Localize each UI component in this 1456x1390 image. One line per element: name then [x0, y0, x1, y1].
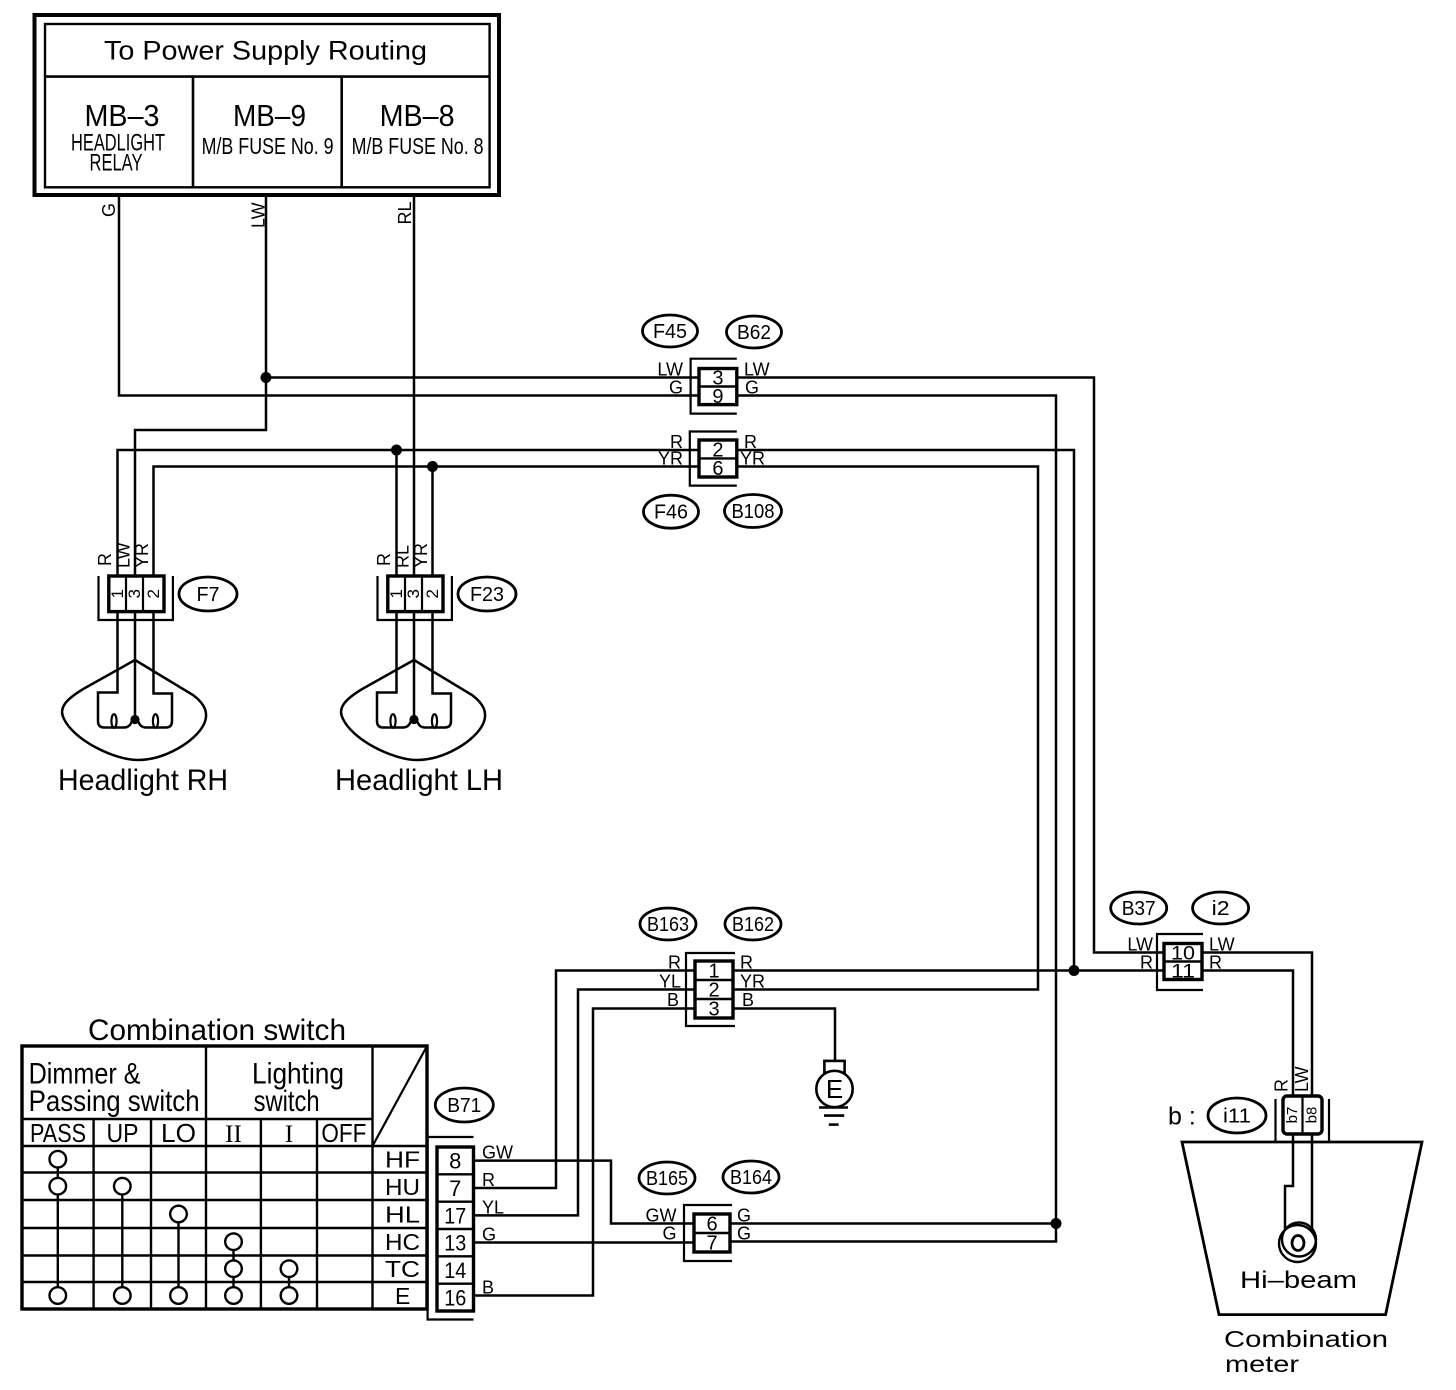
ellipse B108 — [725, 495, 782, 528]
wire label R at RH pin1 (rotated) — [95, 553, 115, 566]
svg-text:HF: HF — [385, 1147, 420, 1173]
svg-text:7: 7 — [449, 1176, 461, 1201]
wire label R at B71 pin 7 — [482, 1170, 495, 1190]
pin number 2 — [712, 439, 723, 461]
wire R net: headlight RH pin1 up, right to F46 pin 2 — [118, 450, 700, 576]
connector B163/B162 bracket — [686, 953, 735, 1026]
wire label G left of F45 — [669, 378, 683, 398]
junction R wire to headlight LH pin 1 — [391, 445, 402, 456]
svg-text:i2: i2 — [1212, 898, 1230, 920]
ellipse B165 — [639, 1162, 695, 1194]
wire branch to LH pin 2 — [431, 467, 434, 577]
svg-text:R: R — [95, 553, 115, 566]
contact circle II/HC — [225, 1233, 242, 1250]
headlight RH bulb filament fork — [98, 612, 172, 728]
pin number 1 — [708, 961, 719, 983]
wire label LW left of B37 — [1127, 935, 1153, 955]
contact circle PASS/HU — [50, 1178, 67, 1195]
wire R from B162 pin 1 to B37 pin 11 — [733, 969, 1164, 972]
svg-text:3: 3 — [404, 589, 423, 598]
pin number 16 — [444, 1285, 466, 1310]
label: To Power Supply Routing — [104, 36, 427, 66]
junction YR wire to headlight LH pin 2 — [427, 461, 438, 472]
pin number 1 (rotated) — [387, 589, 406, 598]
headlight RH connector F7 pin box pins 1,3,2 — [109, 576, 164, 612]
svg-text:LW: LW — [1127, 935, 1153, 955]
svg-text:HU: HU — [385, 1174, 420, 1200]
svg-text:B37: B37 — [1122, 898, 1156, 920]
svg-text:R: R — [374, 553, 394, 566]
wire label B at B71 pin 16 — [482, 1278, 494, 1298]
connector F45/B62 bracket — [691, 359, 737, 414]
column header II — [225, 1121, 242, 1148]
connector B165/B164 bracket — [684, 1205, 732, 1261]
svg-text:F7: F7 — [197, 584, 220, 606]
connector B37/i2 pin box pins 10,11 — [1164, 944, 1202, 980]
svg-text:R: R — [1272, 1079, 1292, 1092]
wire label R right of B37 — [1209, 953, 1222, 973]
ellipse F45 — [643, 315, 698, 347]
wire label G right of F45 — [745, 378, 759, 398]
column header I — [285, 1121, 293, 1148]
wire label LW (rotated) — [249, 202, 269, 228]
svg-text:MB–9: MB–9 — [233, 98, 306, 133]
svg-text:14: 14 — [444, 1258, 466, 1283]
wire label R left of F46 — [670, 432, 683, 452]
connector B71 bracket — [428, 1137, 474, 1320]
row label HC — [385, 1229, 420, 1255]
pin number 9 — [712, 386, 723, 408]
label Lighting switch — [252, 1058, 344, 1119]
pin number 2 (rotated) — [423, 589, 442, 598]
headlight LH connector F23 pin box pins 1,3,2 — [388, 576, 443, 612]
ellipse B162 — [725, 908, 781, 940]
wire R from F46 pin 2 right, down to junction — [737, 450, 1074, 971]
svg-text:OFF: OFF — [321, 1118, 366, 1148]
svg-text:LO: LO — [161, 1118, 196, 1148]
wire YR from F46 pin 6 right, down to B162 pin 2 — [733, 467, 1038, 990]
wire label YR right of F46 — [740, 449, 765, 469]
fuse block MB-3 HEADLIGHT RELAY label — [71, 98, 165, 177]
connector i11 bracket bars — [1276, 1099, 1330, 1142]
pin number 14 — [444, 1258, 466, 1283]
contact line II column — [232, 1242, 234, 1296]
wire label G right of B164 pin6 — [737, 1206, 751, 1226]
svg-text:F23: F23 — [470, 584, 504, 606]
wire label R left of B163 — [668, 953, 681, 973]
connector B37/i2 bracket — [1157, 934, 1203, 990]
svg-text:G: G — [662, 1224, 676, 1244]
svg-text:RELAY: RELAY — [90, 150, 143, 177]
svg-text:Passing switch: Passing switch — [29, 1085, 200, 1118]
svg-text:b8: b8 — [1304, 1107, 1321, 1124]
row label E — [395, 1283, 410, 1309]
contact circle I/E — [281, 1287, 298, 1304]
wire LW from MB-9 down, branch right to F45 pin 3, branch down-left to headlight RH pin 3 — [135, 195, 699, 576]
contact line PASS column — [57, 1159, 59, 1295]
table diagonal — [373, 1046, 428, 1146]
svg-text:Headlight RH: Headlight RH — [58, 764, 228, 797]
pin number 3 (rotated) — [404, 589, 423, 598]
ellipse F46 — [644, 495, 699, 528]
svg-text:17: 17 — [444, 1203, 466, 1228]
svg-text:meter: meter — [1225, 1351, 1299, 1377]
hi-beam indicator bulb — [1279, 1223, 1316, 1263]
power supply routing box outer frame — [35, 15, 500, 195]
connector F46/B108 bracket — [690, 432, 737, 486]
svg-text:I: I — [285, 1121, 293, 1148]
svg-text:b7: b7 — [1284, 1107, 1301, 1124]
headlight LH connector bracket — [378, 576, 452, 620]
svg-text:B62: B62 — [737, 322, 771, 344]
wire LW from B37 pin 10 right then down to connector b8 — [1202, 953, 1312, 1097]
svg-text:G: G — [737, 1224, 751, 1244]
pin number 7 — [706, 1233, 717, 1255]
wire label LW at RH pin3 (rotated) — [114, 542, 134, 568]
svg-text:RL: RL — [393, 545, 413, 568]
wire G from F45 pin 9 right, down to B165 pins 6/7 — [730, 396, 1056, 1242]
svg-text:B162: B162 — [732, 914, 774, 936]
wire G from MB-3 down then right to F45 pin 9 — [119, 195, 699, 396]
combination meter trapezoid — [1182, 1142, 1422, 1315]
svg-text:Hi–beam: Hi–beam — [1240, 1267, 1357, 1294]
contact circle I/TC — [281, 1260, 298, 1277]
svg-text:11: 11 — [1171, 962, 1195, 983]
row label HU — [385, 1174, 420, 1200]
svg-text:HC: HC — [385, 1229, 420, 1255]
ellipse B71 — [435, 1088, 493, 1122]
fuse block MB-8 M/B FUSE No.8 label — [352, 98, 484, 159]
svg-text:9: 9 — [712, 386, 723, 408]
svg-text:F46: F46 — [654, 502, 688, 524]
junction R wire at B162 pin1 run — [1069, 965, 1080, 976]
ellipse B37 — [1111, 892, 1167, 924]
combination switch table grid — [22, 1046, 427, 1309]
headlight RH bulb outline — [62, 660, 206, 760]
wire label RL at LH pin3 (rotated) — [393, 545, 413, 568]
pin number 3 (rotated) — [125, 589, 144, 598]
contact circle PASS/E — [50, 1287, 67, 1304]
pin number 6 — [712, 458, 723, 480]
pin number 6 — [706, 1214, 717, 1236]
connector B165/B164 pin box pins 6,7 — [694, 1214, 730, 1252]
pin number 3 — [712, 368, 723, 390]
svg-text:RL: RL — [395, 201, 415, 224]
wire LW from F45 pin 3 right, down to B37 pin 10 — [737, 378, 1164, 953]
svg-text:3: 3 — [708, 999, 719, 1021]
ellipse F23 — [458, 577, 516, 611]
wire label YR at RH pin2 (rotated) — [132, 543, 152, 568]
wire label B right of B162 — [742, 990, 754, 1010]
pin number 7 — [449, 1176, 461, 1201]
headlight LH bulb filament fork — [377, 612, 451, 728]
svg-text:switch: switch — [254, 1085, 320, 1118]
wire label GW at B71 pin 8 — [482, 1143, 513, 1163]
pin number 1 (rotated) — [108, 589, 127, 598]
wire label LW left of F45 — [657, 360, 683, 380]
contact circle II/TC — [225, 1260, 242, 1277]
label Combination meter — [1224, 1326, 1388, 1377]
row label HF — [385, 1147, 420, 1173]
svg-text:2: 2 — [144, 589, 163, 598]
svg-text:MB–8: MB–8 — [380, 98, 455, 133]
wire R from B71 pin 7 up to B163 pin 1 — [474, 971, 696, 1189]
svg-text:E: E — [826, 1074, 843, 1104]
wire label YL at B71 pin 17 — [482, 1197, 504, 1217]
svg-text:B165: B165 — [646, 1168, 688, 1190]
svg-text:LW: LW — [249, 202, 269, 228]
wire label R at LH pin1 (rotated) — [374, 553, 394, 566]
ground E — [816, 1061, 852, 1125]
wire YR net: headlight RH pin2 up, right to F46 pin 6 — [154, 467, 700, 577]
svg-text:7: 7 — [706, 1233, 717, 1255]
ellipse i11 — [1208, 1098, 1266, 1133]
svg-text:UP: UP — [107, 1118, 139, 1148]
wire branch to LH pin 1 — [395, 450, 398, 576]
svg-text:YR: YR — [740, 972, 765, 992]
svg-text:i11: i11 — [1223, 1106, 1251, 1128]
svg-text:Combination: Combination — [1224, 1326, 1388, 1352]
svg-text:G: G — [669, 378, 683, 398]
wire label R right of B162 — [740, 953, 753, 973]
svg-text:PASS: PASS — [30, 1118, 86, 1148]
wire label G at B71 pin 13 — [482, 1225, 496, 1245]
contact circle UP/HU — [114, 1178, 131, 1195]
label b : — [1168, 1103, 1196, 1131]
column header PASS — [30, 1118, 86, 1148]
pin number 11 — [1171, 962, 1195, 983]
pin label b7 (rotated) — [1284, 1107, 1301, 1124]
svg-text:YR: YR — [411, 543, 431, 568]
wire label GW left of B165 — [646, 1206, 677, 1226]
svg-text:B71: B71 — [447, 1095, 481, 1117]
svg-text:8: 8 — [449, 1149, 461, 1174]
wire label YR right of B162 — [740, 972, 765, 992]
row label TC — [385, 1256, 420, 1282]
wire label G right of B164 pin7 — [737, 1224, 751, 1244]
svg-text:16: 16 — [444, 1285, 466, 1310]
column header OFF — [321, 1118, 366, 1148]
wire label R left of B37 — [1140, 953, 1153, 973]
contact line UP column — [121, 1186, 123, 1295]
svg-text:B: B — [742, 990, 754, 1010]
wire label RL (rotated) — [395, 201, 415, 224]
wire label YR at LH pin2 (rotated) — [411, 543, 431, 568]
wire G from B71 pin 13 to B165 pin 7 — [474, 1241, 695, 1244]
svg-text:B108: B108 — [732, 501, 775, 523]
svg-text:LW: LW — [114, 542, 134, 568]
svg-text:MB–3: MB–3 — [85, 98, 160, 133]
wire label LW right of F45 — [744, 360, 770, 380]
headlight LH center pin wire and contact dot — [409, 612, 418, 725]
svg-text:F45: F45 — [653, 321, 687, 343]
contact circle LO/HL — [170, 1206, 187, 1223]
headlight LH bulb outline — [341, 660, 485, 760]
svg-text:M/B FUSE No. 9: M/B FUSE No. 9 — [202, 133, 334, 159]
wire R from B37 pin 11 right then down to connector b7 — [1202, 971, 1293, 1097]
row label HL — [385, 1202, 420, 1228]
wire label LW right of B37 — [1209, 935, 1235, 955]
contact line LO column — [177, 1214, 179, 1296]
label Dimmer & Passing switch — [29, 1058, 200, 1119]
ellipse B163 — [640, 908, 696, 940]
ellipse i2 — [1193, 892, 1249, 924]
pin number 2 (rotated) — [144, 589, 163, 598]
wire label YL left of B163 — [659, 972, 681, 992]
wire RL from MB-8 down to headlight LH pin 3 — [413, 195, 416, 576]
label Hi-beam — [1240, 1267, 1357, 1294]
svg-text:G: G — [99, 203, 119, 217]
svg-text:Combination switch: Combination switch — [88, 1014, 346, 1047]
svg-text:TC: TC — [385, 1256, 420, 1282]
svg-text:LW: LW — [1292, 1066, 1312, 1092]
svg-text:R: R — [1140, 953, 1153, 973]
pin number 10 — [1171, 944, 1195, 965]
svg-text:13: 13 — [444, 1231, 466, 1256]
fuse block MB-9 M/B FUSE No.9 label — [202, 98, 334, 159]
wire inside meter from b7 to hi-beam bulb — [1285, 1134, 1293, 1232]
svg-text:3: 3 — [125, 589, 144, 598]
contact line I column — [288, 1269, 290, 1296]
connector F45/B62 pin box pins 3,9 — [699, 369, 737, 405]
svg-text:B: B — [667, 990, 679, 1010]
svg-text:YR: YR — [132, 543, 152, 568]
svg-text:B163: B163 — [647, 914, 689, 936]
headlight RH center pin wire and contact dot — [130, 612, 139, 725]
svg-text:6: 6 — [712, 458, 723, 480]
svg-text:G: G — [737, 1206, 751, 1226]
wire label B left of B163 — [667, 990, 679, 1010]
contact circle II/E — [225, 1287, 242, 1304]
svg-text:M/B FUSE No. 8: M/B FUSE No. 8 — [352, 133, 484, 159]
svg-text:LW: LW — [657, 360, 683, 380]
connector i11 pin box cells b7,b8 — [1283, 1096, 1322, 1134]
svg-text:2: 2 — [423, 589, 442, 598]
ellipse F7 — [179, 577, 237, 611]
contact circle LO/E — [170, 1287, 187, 1304]
wire B from B162 pin 3 to ground — [733, 1009, 835, 1061]
ellipse B164 — [723, 1161, 779, 1193]
connector F46/B108 pin box pins 2,6 — [699, 440, 737, 477]
svg-text:R: R — [482, 1170, 495, 1190]
wire label YR left of F46 — [658, 449, 683, 469]
column header LO — [161, 1118, 196, 1148]
wire label LW above b8 (rotated) — [1292, 1066, 1312, 1092]
pin number 3 — [708, 999, 719, 1021]
connector B71 pin box pins 8,7,17,13,14,16 — [437, 1147, 474, 1311]
headlight RH connector bracket — [99, 576, 173, 620]
svg-text:b :: b : — [1168, 1103, 1196, 1131]
connector B163/B162 pin box pins 1,2,3 — [695, 961, 733, 1018]
column header UP — [107, 1118, 139, 1148]
wire B from B71 pin 16 up to B163 pin 3 — [474, 1009, 696, 1296]
wire label R above b7 (rotated) — [1272, 1079, 1292, 1092]
label Headlight RH — [58, 764, 228, 797]
pin number 8 — [449, 1149, 461, 1174]
ellipse B62 — [727, 316, 782, 348]
svg-text:G: G — [482, 1225, 496, 1245]
pin label b8 (rotated) — [1304, 1107, 1321, 1124]
svg-text:YR: YR — [658, 449, 683, 469]
wire label G (rotated) — [99, 203, 119, 217]
wire G branch to B164 pin 6 — [730, 1222, 1056, 1225]
pin number 13 — [444, 1231, 466, 1256]
junction on LW wire — [261, 372, 272, 383]
junction G wire at B164 — [1051, 1218, 1062, 1229]
svg-text:II: II — [225, 1121, 242, 1148]
wire YL from B71 pin 17 up to B163 pin 2 — [474, 990, 696, 1216]
pin number 2 — [708, 980, 719, 1002]
svg-text:HL: HL — [385, 1202, 420, 1228]
svg-text:B164: B164 — [730, 1167, 772, 1189]
wire GW from B71 pin 8 to B165 pin 6 — [474, 1161, 695, 1224]
svg-text:B: B — [482, 1278, 494, 1298]
svg-text:To Power Supply Routing: To Power Supply Routing — [104, 36, 427, 66]
wire label G left of B165 — [662, 1224, 676, 1244]
svg-text:YL: YL — [482, 1197, 504, 1217]
wire label R right of F46 — [744, 432, 757, 452]
label Headlight LH — [335, 764, 503, 797]
svg-text:GW: GW — [482, 1143, 513, 1163]
pin number 17 — [444, 1203, 466, 1228]
label Combination switch — [88, 1014, 346, 1047]
wire inside meter from b8 to hi-beam bulb — [1311, 1134, 1314, 1233]
contact circle UP/E — [114, 1287, 131, 1304]
svg-text:E: E — [395, 1283, 410, 1309]
contact circle PASS/HF — [50, 1151, 67, 1168]
svg-text:Headlight LH: Headlight LH — [335, 764, 503, 797]
